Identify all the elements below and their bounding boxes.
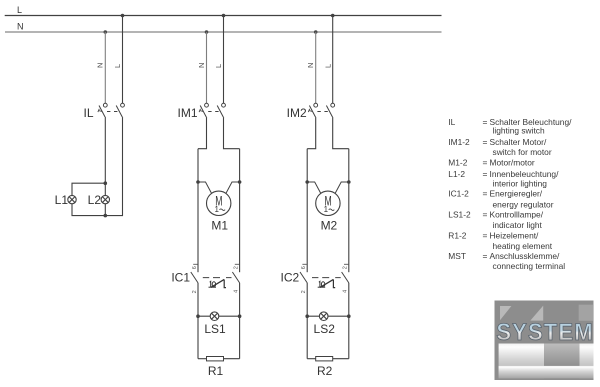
lamp LS1 [210,312,219,321]
wire IC1 left lower rail [197,283,199,359]
node junction dot motor right [238,180,242,184]
switch IM1 pole 1 blade [200,106,207,119]
wire IM1 pole1 to box [198,118,207,149]
svg-text:L1: L1 [55,193,69,207]
svg-text:R1-2: R1-2 [448,231,466,241]
svg-text:indicator light: indicator light [493,220,543,230]
regulator IC2 energy symbol [318,279,336,287]
regulator IC2 blade left [300,272,307,283]
node junction dot motor right [347,180,351,184]
wire N drop to IL switch [104,32,106,103]
svg-text:=: = [483,210,488,220]
switch IM1 pole 1 contact [205,103,209,107]
svg-text:N: N [96,63,105,68]
wire lamp bottoms [72,118,123,216]
wire IM2 right rail [348,149,350,273]
svg-text:L: L [17,5,22,15]
switch IM1 pole 2 contact [222,103,226,107]
svg-text:lighting switch: lighting switch [493,126,545,136]
wire IM1 left rail [197,149,199,273]
switch IL pole 2 contact [121,103,125,107]
switch IL pole 1 contact [103,103,107,107]
node junction dot LS1 left [196,314,200,318]
svg-text:L1-2: L1-2 [448,169,465,179]
wire N drop to IM2 switch [315,32,317,103]
regulator IC2 pin bar top-left [302,263,306,265]
svg-text:IL: IL [83,106,93,120]
node junction dot lamp top [104,181,108,185]
wire IC2 left lower rail [306,283,308,359]
switch IM1 actuator tick [199,109,203,112]
svg-text:R1: R1 [208,364,224,378]
wire L bus [5,15,442,17]
wire R2 row left [307,358,316,360]
wire IL pole1 below switch [104,118,106,195]
svg-text:L: L [113,64,122,68]
wire motor tap right [226,182,240,194]
node junction dot lamp bottom [104,214,108,218]
svg-text:Innenbeleuchtung/: Innenbeleuchtung/ [490,169,560,179]
svg-text:M1-2: M1-2 [448,158,467,168]
wire N drop to IM1 switch [206,32,208,103]
legend [448,117,572,271]
switch IM2 pole 1 contact [314,103,318,107]
resistor R2 [316,357,333,361]
motor M1 [207,191,231,215]
wire N bus [5,31,442,33]
svg-text:2: 2 [192,290,198,293]
svg-text:4: 4 [234,290,240,293]
svg-text:LS1: LS1 [204,322,226,336]
wire L drop to IM2 switch [332,16,334,104]
svg-text:=: = [483,137,488,147]
wire LS2 row [307,315,349,317]
logo background [495,301,594,381]
switch IM2 pole 1 blade [309,106,316,119]
switch IM2 actuator tick [308,109,312,112]
wire IM1 right rail [239,149,241,273]
logo bottom metal base [499,366,594,378]
regulator IC1 blade left [191,272,198,283]
node junction dot motor left [196,180,200,184]
svg-text:4: 4 [343,290,349,293]
wire IC2 right lower rail [348,283,350,359]
svg-text:N: N [197,63,206,68]
regulator IC1 energy symbol [209,279,227,287]
node junction dot LS2 right [347,314,351,318]
regulator IC2 blade right [342,272,349,283]
switch IL coupling dashed link [107,111,118,113]
svg-text:=: = [483,158,488,168]
node junction dot LS2 left [305,314,309,318]
node junction dot L bus / IL [121,14,125,18]
svg-text:connecting terminal: connecting terminal [493,261,566,271]
svg-text:6: 6 [192,266,198,269]
logo System 4 [495,301,594,381]
svg-text:N: N [17,22,24,32]
node junction dot L bus / IM1 [222,14,226,18]
svg-text:Anschlussklemme/: Anschlussklemme/ [490,251,560,261]
node junction dot N bus / IL [104,30,108,34]
switch IL pole 1 blade [99,106,106,119]
logo triangle 1 [500,306,511,320]
svg-text:=: = [483,117,488,127]
svg-text:SYSTEM: SYSTEM [496,318,593,345]
wire motor tap right [335,182,349,194]
node junction dot N bus / IM1 [205,30,209,34]
regulator IC1 blade right [232,272,239,283]
wire L drop to IM1 switch [223,16,225,104]
wire IM2 left rail [306,149,308,273]
svg-text:M2: M2 [321,219,338,233]
svg-text:L: L [214,64,223,68]
lamp L2 [101,195,109,203]
wire motor tap left [198,182,212,194]
svg-text:N: N [306,63,315,68]
regulator IC2 pin bar top-right [344,263,348,265]
svg-text:IL: IL [448,117,455,127]
regulator IC1 pin bar top-left [193,263,197,265]
svg-text:=: = [483,189,488,199]
motor M2 [316,191,340,215]
node junction dot motor left [305,180,309,184]
svg-text:L: L [323,64,332,68]
svg-text:L2: L2 [88,193,102,207]
svg-text:Energieregler/: Energieregler/ [490,189,543,199]
svg-text:1: 1 [214,205,219,214]
switch IM2 pole 2 contact [331,103,335,107]
svg-text:IM1: IM1 [177,106,197,120]
wire lamp top branch [72,183,105,195]
resistor R1 [207,357,224,361]
regulator IC2 coupling dashes [312,277,341,279]
svg-text:=: = [483,251,488,261]
svg-text:energy regulator: energy regulator [493,199,554,209]
svg-text:LS2: LS2 [314,322,336,336]
svg-text:MST: MST [448,251,466,261]
wire IC1 right lower rail [239,283,241,359]
svg-text:switch for motor: switch for motor [493,147,552,157]
svg-text:Motor/motor: Motor/motor [490,158,535,168]
svg-text:=: = [483,231,488,241]
svg-text:IC1: IC1 [171,271,190,285]
node junction dot L bus / IM2 [331,14,335,18]
wire R1 row left [198,358,207,360]
wire IM1 pole2 to box [224,118,240,149]
regulator IC1 coupling dashes [203,277,232,279]
wire R1 row right [224,358,240,360]
lamp L1 [68,195,76,203]
wire IM2 pole2 to box [333,118,349,149]
switch IM2 coupling dashed link [317,111,328,113]
svg-text:Kontrolllampe/: Kontrolllampe/ [490,210,544,220]
switch IL pole 2 blade [116,106,123,119]
lamp LS2 [319,312,328,321]
svg-text:Schalter Motor/: Schalter Motor/ [490,137,547,147]
svg-text:IM2: IM2 [287,106,307,120]
logo bottom metal left block [499,344,544,379]
wire motor tap left [307,182,321,194]
svg-text:2: 2 [343,266,349,269]
wire R2 row right [333,358,349,360]
svg-text:2: 2 [234,266,240,269]
regulator IC1 pin bar top-right [235,263,239,265]
logo notch [544,344,580,366]
svg-text:6: 6 [301,266,307,269]
switch IL actuator tick [98,109,102,112]
node junction dot N bus / IM2 [314,30,318,34]
svg-text:1: 1 [324,205,329,214]
svg-text:IC1-2: IC1-2 [448,189,469,199]
svg-text:M1: M1 [211,219,228,233]
wire LS1 row [198,315,240,317]
switch IM2 pole 2 blade [326,106,333,119]
svg-text:IM1-2: IM1-2 [448,137,470,147]
logo bottom metal right block [580,344,594,379]
wire IM2 pole1 to box [307,118,316,149]
wire L drop to IL switch [122,16,124,104]
logo top right square [579,305,593,321]
svg-text:Heizelement/: Heizelement/ [490,231,540,241]
svg-text:2: 2 [301,290,307,293]
switch IM1 coupling dashed link [208,111,219,113]
svg-text:=: = [483,169,488,179]
logo triangle 2 [530,306,543,321]
svg-text:heating element: heating element [493,241,553,251]
node junction dot LS1 right [238,314,242,318]
switch IM1 pole 2 blade [217,106,224,119]
svg-text:interior lighting: interior lighting [493,178,548,188]
svg-text:LS1-2: LS1-2 [448,210,471,220]
svg-text:IC2: IC2 [281,271,300,285]
svg-text:R2: R2 [317,364,333,378]
